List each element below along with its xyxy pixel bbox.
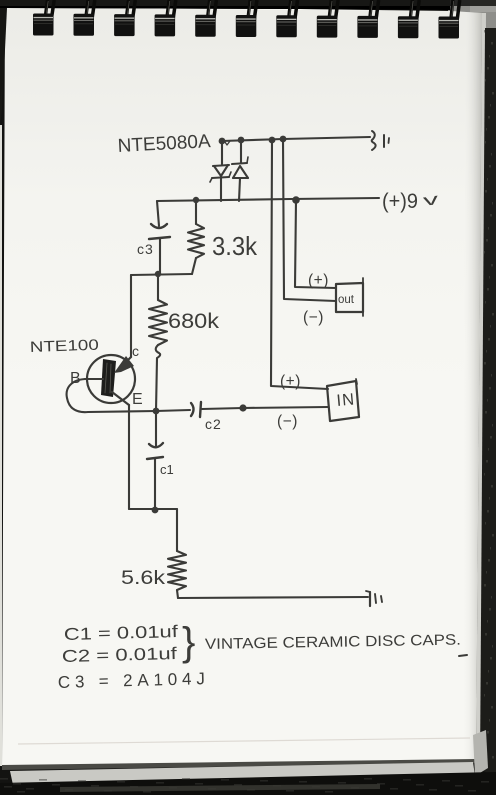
svg-text:NTE100: NTE100 [30, 337, 100, 356]
svg-text:c1: c1 [160, 462, 174, 477]
svg-text:(+)9: (+)9 [382, 190, 418, 213]
svg-text:(−): (−) [277, 413, 298, 430]
svg-text:(+): (+) [308, 272, 329, 289]
svg-text:5.6k: 5.6k [121, 567, 165, 589]
svg-text:}: } [182, 620, 195, 664]
svg-text:C1 = 0.01uf: C1 = 0.01uf [64, 622, 179, 644]
svg-text:(−): (−) [303, 309, 324, 326]
svg-text:out: out [338, 294, 355, 306]
svg-text:c2: c2 [205, 416, 222, 432]
svg-text:c: c [132, 343, 139, 359]
svg-text:c3: c3 [137, 241, 154, 257]
svg-text:v: v [422, 191, 439, 210]
svg-text:E: E [132, 391, 143, 408]
svg-text:3.3k: 3.3k [212, 231, 258, 261]
svg-text:C3 = 2A104J: C3 = 2A104J [58, 669, 205, 692]
svg-text:680k: 680k [168, 309, 219, 333]
svg-text:C2 = 0.01uf: C2 = 0.01uf [62, 644, 178, 666]
svg-text:IN: IN [336, 390, 356, 410]
svg-text:(+): (+) [280, 373, 301, 390]
svg-text:B: B [70, 370, 81, 387]
